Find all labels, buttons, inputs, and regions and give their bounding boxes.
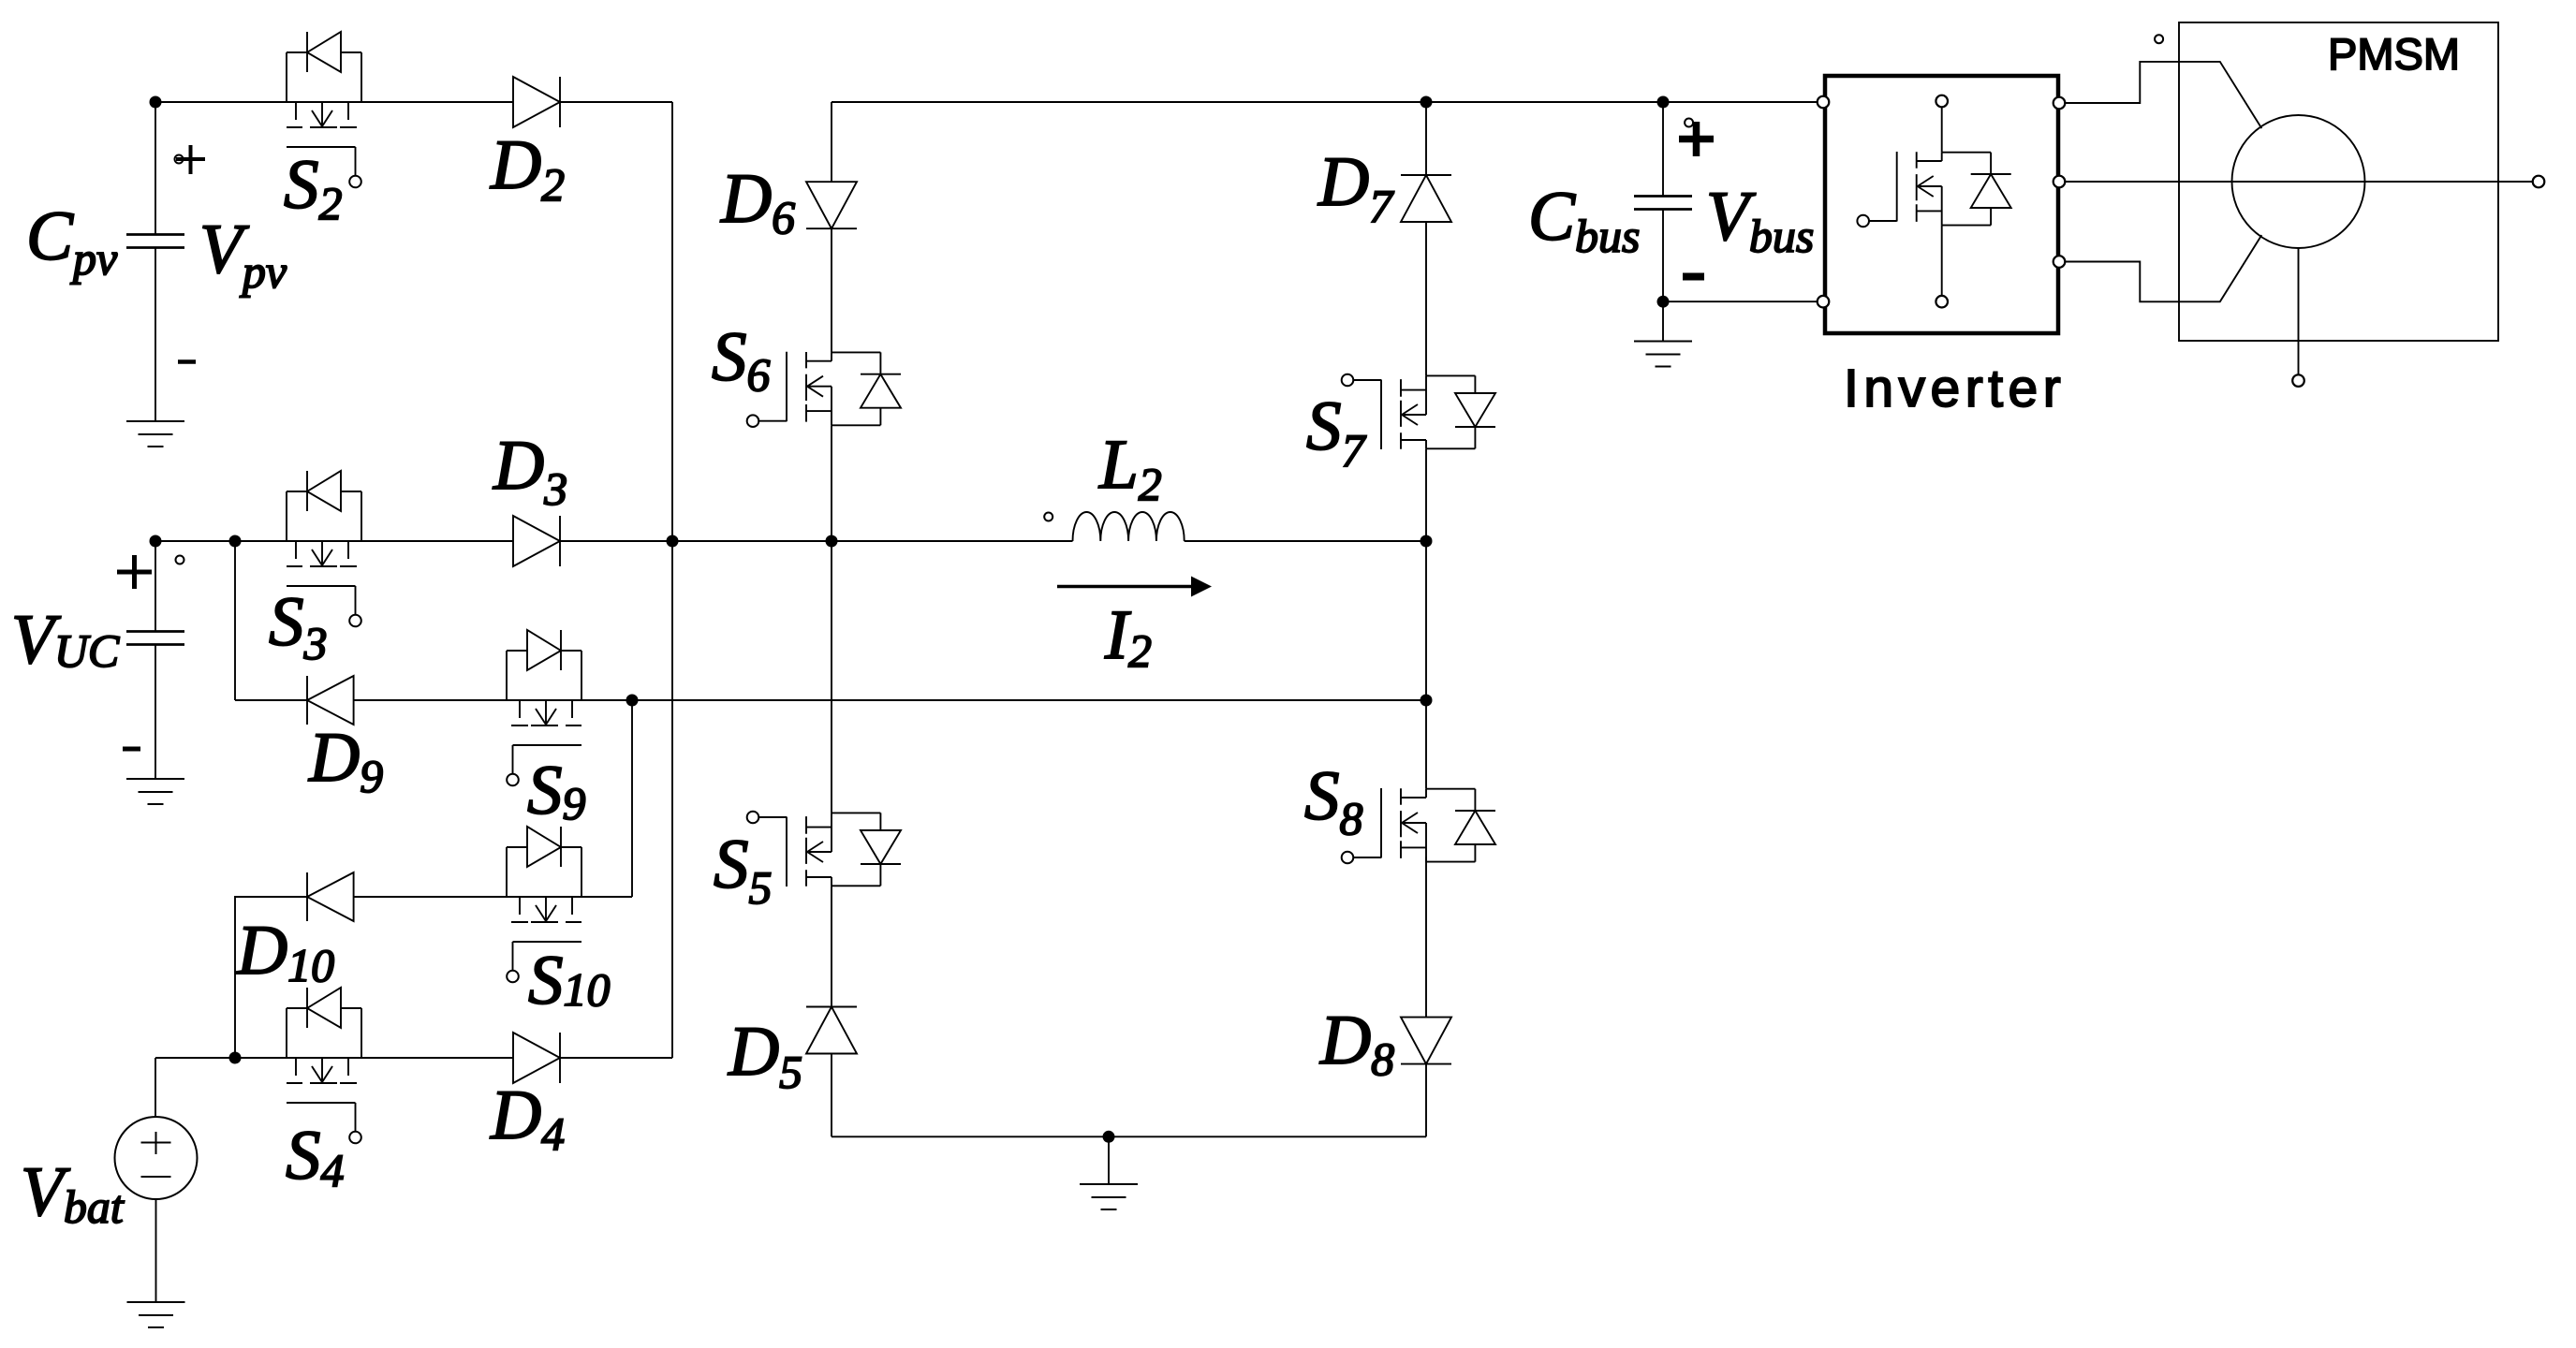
wire Cbus to inverter bottom: [1663, 300, 1818, 302]
svg-text:S7: S7: [1306, 388, 1367, 476]
wire battery node down: [155, 1058, 156, 1117]
diode D4: [513, 1033, 560, 1083]
wire battery row: [155, 1057, 513, 1059]
mosfet S8: [1342, 788, 1495, 863]
svg-text:L2: L2: [1098, 426, 1162, 510]
wire S9 branch down: [631, 700, 633, 897]
diode D10: [307, 872, 354, 921]
node right leg top rail: [1420, 96, 1433, 109]
capacitor VUC: [126, 632, 184, 645]
svg-text:Cbus: Cbus: [1528, 178, 1641, 262]
svg-text:S2: S2: [284, 146, 343, 229]
inductor L2: [1073, 512, 1185, 541]
wire left leg top: [831, 102, 832, 182]
wire S5 to D5: [831, 886, 832, 1006]
svg-text:S9: S9: [527, 752, 586, 829]
node UC positive: [150, 535, 162, 548]
svg-text:Vpv: Vpv: [199, 211, 287, 298]
svg-text:S4: S4: [286, 1117, 345, 1196]
wire phase C: [2065, 235, 2261, 301]
small circle L2: [1044, 513, 1052, 521]
terminal circle bus plus: [1685, 119, 1693, 127]
ground battery: [127, 1302, 185, 1327]
svg-text:Cpv: Cpv: [26, 198, 118, 285]
svg-text:S3: S3: [269, 583, 328, 669]
wire right leg to D7: [1425, 102, 1427, 175]
wire D2 to bus: [560, 101, 672, 103]
mosfet S3: [287, 471, 361, 626]
plus sign bus: [1679, 122, 1714, 156]
svg-text:I2: I2: [1104, 596, 1152, 677]
svg-text:Vbus: Vbus: [1706, 178, 1814, 262]
terminal inverter input plus: [1818, 96, 1830, 109]
terminal inverter output C: [2053, 256, 2066, 268]
wire motor stem: [2298, 248, 2300, 374]
wire PV node to D2: [155, 101, 513, 103]
wire S10 row: [354, 896, 632, 898]
wire mid rail to S5: [831, 541, 832, 813]
svg-text:Vbat: Vbat: [21, 1153, 125, 1233]
mosfet S4: [287, 988, 361, 1143]
terminal circle PV plus: [175, 155, 184, 164]
plus sign UC: [117, 555, 152, 589]
svg-text:PMSM: PMSM: [2328, 29, 2460, 79]
svg-text:D7: D7: [1317, 143, 1394, 232]
wire Cbus bottom: [1662, 210, 1664, 302]
wire L2 to right leg: [1185, 540, 1426, 542]
minus sign bus: [1683, 273, 1704, 281]
terminal inverter input minus: [1818, 296, 1830, 308]
diode D5: [806, 1007, 857, 1054]
plus sign PV: [176, 145, 205, 174]
wire D7 to S7: [1425, 222, 1427, 375]
wire D10 to battery row: [235, 897, 307, 1058]
svg-text:D4: D4: [490, 1077, 565, 1160]
diode D9: [307, 676, 354, 725]
terminal circle UC: [176, 556, 184, 564]
svg-text:VUC: VUC: [11, 601, 120, 679]
wire D5 to bottom rail: [831, 1054, 832, 1137]
mosfet S7: [1342, 374, 1495, 449]
wire top rail right section: [832, 101, 1818, 103]
terminal inverter mosfet bottom: [1936, 296, 1948, 308]
node left leg mid rail: [826, 535, 838, 548]
capacitor Cpv: [126, 235, 184, 248]
diode D3: [513, 516, 560, 566]
diode D6: [806, 182, 857, 228]
ground bus: [1634, 342, 1692, 367]
svg-text:D8: D8: [1319, 1002, 1394, 1085]
wire D3 to L2: [560, 540, 1073, 542]
wire PV node to Cpv: [155, 102, 156, 235]
node UC to D9 branch: [229, 535, 242, 548]
node Cbus bottom: [1657, 296, 1670, 308]
svg-text:D6: D6: [720, 160, 795, 243]
pmsm box: [2179, 22, 2498, 341]
minus sign UC: [123, 747, 140, 752]
svg-text:D9: D9: [308, 719, 383, 802]
terminal inverter output B: [2053, 176, 2066, 188]
terminal inverter output A: [2053, 97, 2066, 110]
wire S6 to mid rail: [831, 425, 832, 541]
wire D8 to bottom rail: [1425, 1064, 1427, 1137]
node S9 to S10 branch: [626, 695, 639, 707]
node right leg second rail: [1420, 695, 1433, 707]
node Cbus top: [1657, 96, 1670, 109]
wire bottom rail: [832, 1136, 1426, 1137]
wire Cpv to ground: [155, 248, 156, 422]
wire UC node to cap: [155, 541, 156, 632]
motor circle: [2232, 115, 2365, 248]
node battery: [229, 1052, 242, 1064]
node right leg mid rail: [1420, 535, 1433, 548]
wire D4 to bus: [560, 1057, 672, 1059]
wire to D9: [235, 699, 307, 701]
ground UC: [126, 779, 184, 804]
mosfet S9: [507, 630, 581, 785]
wire VUC to ground: [155, 645, 156, 780]
source Vbat: [115, 1117, 198, 1199]
capacitor Cbus: [1634, 197, 1692, 210]
wire S7 to second rail: [1425, 448, 1427, 700]
terminal motor stem: [2292, 374, 2304, 387]
minus sign PV: [178, 359, 196, 364]
wire second rail to S8: [1425, 700, 1427, 789]
mosfet S10: [507, 827, 581, 982]
wire phase B: [2065, 181, 2532, 183]
wire phase A: [2065, 62, 2261, 128]
mosfet inverter: [1857, 152, 2010, 227]
terminal phase B: [2533, 176, 2545, 188]
svg-text:S8: S8: [1304, 757, 1363, 844]
small circle phase A: [2155, 35, 2163, 43]
wire branch down to D9 row: [234, 541, 236, 700]
wire Cbus top: [1662, 102, 1664, 197]
node PV positive rail: [150, 96, 162, 109]
ground PV: [126, 421, 184, 447]
wire S8 to D8: [1425, 857, 1427, 1017]
svg-text:D2: D2: [490, 126, 565, 211]
inverter box: [1825, 76, 2058, 333]
svg-text:S10: S10: [528, 942, 611, 1019]
diode D8: [1401, 1018, 1451, 1064]
node bus mid rail: [667, 535, 679, 548]
wire bus vertical: [671, 102, 673, 1058]
wire UC rail to D3: [155, 540, 513, 542]
wire inverter mosfet bottom: [1941, 226, 1943, 296]
svg-text:D5: D5: [728, 1013, 802, 1098]
diode D2: [513, 77, 560, 127]
svg-text:Inverter: Inverter: [1844, 359, 2066, 418]
node bottom ground tap: [1103, 1131, 1115, 1143]
wire battery to ground: [155, 1199, 157, 1302]
svg-text:S5: S5: [714, 826, 773, 914]
svg-text:D10: D10: [236, 912, 334, 991]
wire inverter mosfet top: [1941, 107, 1943, 152]
wire Cbus ground stem: [1662, 301, 1664, 341]
wire ground stem: [1108, 1136, 1110, 1184]
svg-text:D3: D3: [493, 427, 567, 515]
wire D9 to right leg (second rail): [354, 699, 1426, 701]
mosfet S6: [747, 352, 901, 427]
diode D7: [1401, 175, 1451, 222]
svg-text:S6: S6: [712, 318, 771, 401]
mosfet S2: [287, 32, 361, 187]
ground bottom: [1080, 1184, 1138, 1209]
mosfet S5: [747, 812, 901, 886]
arrow I2: [1057, 585, 1191, 588]
wire D6 to S6: [831, 228, 832, 352]
terminal inverter mosfet top: [1936, 95, 1948, 108]
